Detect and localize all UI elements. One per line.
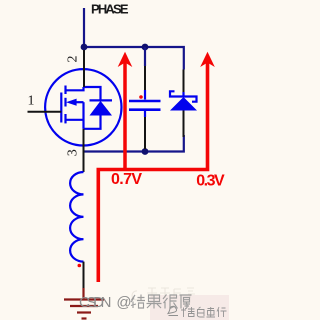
- glyph 果: [147, 295, 162, 309]
- body diode branch: [84, 87, 101, 129]
- wire top horizontal: [84, 47, 184, 70]
- arrow 0.7V line: [123, 60, 127, 170]
- source internal lead: [66, 119, 84, 121]
- svg-text:@: @: [116, 294, 131, 311]
- faint ghost watermark: [132, 288, 195, 300]
- svg-text:0.3V: 0.3V: [196, 172, 225, 189]
- cap top wire stub: [144, 47, 146, 66]
- inductor pin 1 dot: [78, 264, 82, 268]
- watermark brand glyphs 博鸟硬件: [181, 307, 227, 317]
- cap bottom plate: [129, 108, 161, 111]
- body diode triangle: [90, 101, 113, 116]
- glyph 结: [131, 295, 145, 309]
- drain internal lead: [66, 87, 84, 90]
- junction capacitor bottom: [142, 148, 149, 155]
- cap top plate: [129, 100, 161, 103]
- source arrow lead: [76, 101, 84, 103]
- arrow 0.7V head: [118, 52, 133, 67]
- junction drain node: [81, 44, 88, 51]
- wire bottom horizontal: [84, 135, 184, 152]
- svg-text:1: 1: [28, 94, 35, 109]
- diode cathode bar with hooks: [170, 91, 197, 101]
- mosfet body circle: [45, 69, 121, 145]
- glyph 很: [163, 295, 178, 309]
- diode triangle: [170, 97, 197, 111]
- pin 1 (gate): [28, 111, 62, 113]
- watermark bird logo: [168, 306, 178, 315]
- gate bar: [60, 93, 62, 123]
- svg-text:PHASE: PHASE: [91, 2, 129, 17]
- watermark badge background: [150, 295, 229, 320]
- wire PHASE vertical: [83, 8, 85, 47]
- cap polarity mark: [139, 95, 143, 99]
- svg-text:2: 2: [65, 56, 80, 63]
- pin 3 (source): [83, 129, 85, 152]
- diode D1 (schottky): [170, 70, 197, 138]
- watermark CSDN text: [79, 294, 192, 311]
- diode top stub: [182, 92, 184, 97]
- inductor L1: [70, 152, 83, 290]
- svg-text:CSDN: CSDN: [79, 294, 112, 311]
- pin 2 (drain): [83, 50, 85, 87]
- cap pin bottom: [144, 117, 146, 149]
- diode pin bottom: [183, 111, 185, 138]
- internal vertical source bus: [82, 102, 84, 129]
- inductor pin top: [83, 152, 85, 173]
- channel bar bottom: [64, 114, 66, 123]
- source arrow head: [66, 99, 77, 106]
- red probe wire: [98, 58, 207, 282]
- svg-text:0.7V: 0.7V: [111, 171, 142, 188]
- cap bottom lead: [144, 111, 146, 117]
- channel bar top: [64, 86, 66, 95]
- cap pin top: [144, 66, 146, 90]
- inductor coils: [70, 172, 83, 262]
- inductor pin bottom: [83, 262, 85, 289]
- transistor Q1 (N-MOSFET): [45, 69, 121, 145]
- channel bar middle: [64, 98, 66, 107]
- capacitor C1: [129, 47, 161, 149]
- cap top lead: [144, 90, 146, 100]
- svg-text:3: 3: [66, 149, 81, 156]
- arrow 0.3V head: [200, 52, 215, 67]
- ground: [64, 288, 104, 319]
- glyph 厚: [180, 295, 192, 309]
- junction capacitor top: [142, 44, 149, 51]
- diode pin top: [183, 70, 185, 93]
- body diode cathode bar: [90, 99, 113, 101]
